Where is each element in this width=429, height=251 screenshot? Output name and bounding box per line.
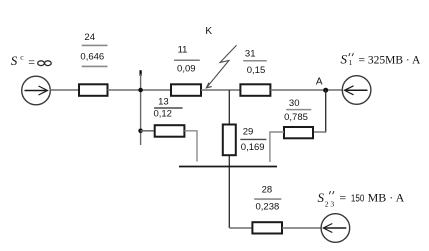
resistor 28 [252,222,282,233]
value label 28 / 0,238 [254,184,281,212]
svg-text:=: = [339,191,346,205]
wire 30 to bus [270,132,284,162]
wire 31 to right source [270,89,342,91]
resistor 13 [155,125,185,137]
svg-text:A: A [316,76,323,87]
resistor 11 [171,84,201,96]
label K [205,26,212,37]
node junction on main wire [138,88,143,93]
svg-text:S: S [341,52,348,67]
wire node to resistor 13 [141,130,155,132]
svg-text:K: K [205,26,212,37]
wire main left [50,89,79,91]
svg-text:28: 28 [262,184,273,195]
short-circuit lightning arrow at K [206,45,236,88]
svg-text:150: 150 [351,193,365,204]
value label 30 / 0,785 [284,98,311,123]
wire 24 to 11 [108,89,172,91]
svg-text:0,12: 0,12 [153,109,172,120]
svg-text:0,238: 0,238 [256,202,280,213]
svg-text:S: S [11,53,18,68]
node A [323,88,328,93]
value label 29 / 0,169 [240,127,266,153]
resistor 24 [79,84,108,96]
value label 11 / 0,09 [174,44,200,74]
label Sc = infinity [11,53,51,69]
wire 11 to 31 [201,89,240,91]
svg-text:11: 11 [178,44,188,55]
wire A down to resistor 30 [313,90,326,132]
svg-text:30: 30 [289,98,300,109]
svg-text:0,785: 0,785 [284,112,308,123]
label A [316,76,323,87]
wire 13 to bus [184,131,197,162]
svg-text:0,169: 0,169 [241,142,265,153]
svg-text:S: S [318,190,325,205]
svg-text:=: = [28,55,35,69]
resistor 31 [240,84,270,96]
wire 28 to source S23 [282,227,321,229]
source S1 [342,76,371,105]
svg-text:13: 13 [158,97,169,108]
svg-text:24: 24 [84,32,95,43]
svg-text:2 3: 2 3 [325,200,335,209]
svg-text:31: 31 [245,48,256,59]
value label 31 / 0,15 [243,48,267,76]
svg-text:1: 1 [349,58,353,67]
label S23'' = 150 MV A [318,190,405,209]
source Sc (system) [22,76,51,105]
svg-text:0,09: 0,09 [177,64,196,75]
svg-text:29: 29 [243,127,254,138]
value label 13 / 0,12 [153,97,182,120]
label S1'' = 325 MV A [341,52,421,68]
bus bar [179,166,277,168]
wire bottom to resistor 28 [229,227,252,229]
source S23 [321,214,350,243]
resistor 29 (vertical) [223,125,236,156]
wire 29 down through bus [228,155,230,228]
svg-text:0,15: 0,15 [247,65,266,76]
svg-text:= 325MB · A: = 325MB · A [359,54,421,66]
wire vertical node branch [140,74,142,145]
tick mark above node [139,70,141,76]
svg-text:0,646: 0,646 [80,52,104,63]
node junction lower [138,129,143,134]
value label 24 / 0,646 [80,32,107,67]
resistor 30 [284,127,313,138]
wire vertical to resistor 29 [228,90,230,125]
svg-text:MB · A: MB · A [368,191,405,205]
